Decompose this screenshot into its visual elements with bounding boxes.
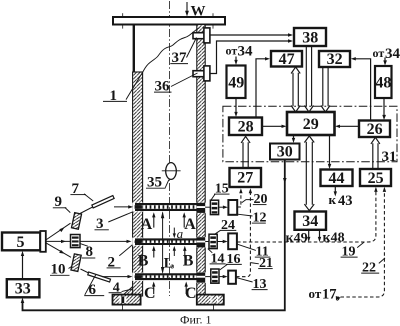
power unit block 33	[7, 279, 40, 297]
centerline column axis	[169, 1, 171, 296]
arrow W load	[186, 2, 188, 13]
svg-text:30: 30	[277, 144, 293, 161]
bolt axis tick left	[122, 13, 124, 28]
wall notch C left	[132, 273, 143, 281]
svg-text:27: 27	[237, 170, 253, 187]
beam splitter 9	[71, 213, 81, 230]
laser source block 5	[2, 233, 40, 251]
beam 5 to splitter 9	[46, 223, 71, 240]
arrow C left	[153, 285, 155, 294]
photodetector 16 (level C)	[211, 269, 219, 283]
svg-text:от: от	[373, 46, 385, 60]
right wall (hatched)	[197, 25, 205, 296]
beam window left wall A	[135, 205, 142, 209]
block 47	[271, 51, 302, 67]
wire 48 to 26	[383, 98, 385, 117]
wire 29 to 44	[329, 135, 331, 166]
svg-text:Фиг. 1: Фиг. 1	[180, 313, 211, 326]
beam wall to detector B	[205, 241, 208, 243]
mirror 7	[92, 196, 114, 208]
block 27	[230, 168, 262, 187]
block 34	[295, 212, 327, 230]
block 32	[319, 51, 350, 67]
beam window left wall B	[135, 240, 142, 243]
channel 25-26	[373, 143, 378, 169]
wire detector to amplifier A	[219, 206, 225, 208]
plate B hatch ticks	[138, 241, 198, 243]
svg-text:A: A	[141, 216, 153, 233]
plate C hatch ticks	[138, 275, 198, 278]
beam 5 to element 8	[46, 240, 71, 242]
left wall upper line	[133, 25, 135, 73]
svg-text:33: 33	[15, 281, 31, 298]
plate A hatch ticks	[138, 205, 198, 208]
sight glass 35 ellipse	[166, 163, 177, 180]
svg-text:29: 29	[303, 116, 319, 133]
svg-text:от: от	[226, 44, 238, 58]
dimension L line	[162, 213, 164, 273]
photodetector 15 (level A)	[210, 200, 218, 214]
svg-text:A: A	[184, 216, 196, 233]
wire 34 to k49	[308, 230, 310, 239]
wire 26 to 32	[354, 59, 371, 121]
wire 28 to 47	[256, 59, 267, 118]
wire 26 to 29	[338, 125, 359, 127]
svg-text:38: 38	[302, 30, 318, 47]
amplifier 11 (level B)	[228, 233, 237, 249]
wall notch A left	[132, 203, 143, 212]
beam C into column	[102, 276, 130, 278]
foot bolt tick left	[121, 305, 123, 310]
svg-text:к: к	[329, 192, 337, 207]
svg-text:к48: к48	[323, 231, 345, 246]
beam 5 to splitter 10	[46, 243, 71, 257]
arrow B left	[153, 250, 155, 258]
svg-text:26: 26	[367, 121, 383, 138]
plate B lines	[135, 239, 203, 244]
mirror 6	[88, 272, 111, 282]
wire 30 down to 33 (feedback)	[23, 160, 285, 311]
channel 47-29 double arrow	[293, 73, 298, 106]
beam B into column	[80, 240, 129, 242]
modulator element 8	[71, 235, 81, 248]
beam window right wall C	[197, 273, 205, 283]
svg-text:34: 34	[238, 44, 254, 60]
block 49	[227, 66, 246, 99]
svg-text:34: 34	[302, 213, 318, 230]
wall notch B right	[196, 237, 205, 248]
svg-text:48: 48	[375, 75, 391, 92]
wire 33 to 5	[22, 255, 24, 280]
wire 28 to 29	[262, 125, 284, 127]
block 44	[321, 170, 353, 187]
svg-text:a: a	[177, 226, 184, 241]
svg-text:17,: 17,	[322, 286, 341, 302]
foot bolt tick right	[212, 305, 214, 310]
ot17 arrowhead	[336, 296, 341, 300]
dash-dot enclosure frame 31	[223, 106, 397, 161]
svg-text:W: W	[191, 4, 206, 20]
left foot (hatched)	[113, 295, 141, 305]
beam 10 to mirror 6	[81, 269, 97, 277]
arrow A right	[183, 216, 185, 228]
wire 29 to 30	[293, 135, 295, 140]
wire 34 to k48	[319, 230, 321, 239]
dashed amplifier 13 to 27	[236, 192, 250, 277]
dashed arrowheads into 25	[374, 187, 377, 192]
dashed ot17 to 25	[341, 190, 385, 297]
svg-text:от: от	[309, 286, 322, 301]
right foot (hatched)	[197, 295, 224, 305]
beam window right wall A	[197, 203, 205, 213]
photodetector 24 (level B)	[209, 234, 217, 248]
wall notch C right	[196, 272, 205, 283]
svg-text:B: B	[138, 253, 149, 270]
left wall (hatched)	[133, 72, 143, 296]
arrow A left	[153, 216, 155, 228]
svg-text:28: 28	[238, 119, 254, 136]
dashed amplifier 12 to 27	[237, 192, 241, 207]
arrow B right	[184, 250, 186, 258]
block 48	[375, 66, 392, 98]
arrow C right	[185, 285, 187, 294]
wire 49 to 28	[235, 98, 237, 114]
beam 9 to mirror 7	[80, 206, 96, 214]
svg-text:44: 44	[329, 170, 345, 187]
laser lens window	[40, 231, 46, 252]
svg-text:34: 34	[385, 46, 400, 62]
svg-text:31: 31	[382, 149, 397, 165]
block 28	[229, 118, 262, 136]
left foot flare	[124, 287, 133, 295]
wall notch B left	[132, 238, 143, 246]
channel 27-28	[243, 142, 248, 168]
plate C lines	[135, 274, 203, 279]
svg-text:49: 49	[228, 74, 244, 91]
plate A lines	[135, 204, 203, 210]
wire 44 to k43	[334, 186, 336, 193]
block 30	[270, 144, 300, 160]
channel 38-29	[306, 46, 311, 106]
svg-text:47: 47	[279, 51, 295, 68]
dashed arrowheads into 27	[239, 188, 242, 193]
svg-text:43: 43	[338, 193, 353, 209]
wire sensor 37 to 38	[210, 34, 291, 36]
wire from 34 into 49	[235, 57, 237, 62]
beam wall to detector A	[205, 206, 210, 208]
channel 29-34	[306, 142, 312, 205]
block 25	[360, 169, 391, 186]
beam window right wall B	[197, 237, 205, 247]
svg-text:5: 5	[17, 234, 25, 251]
wire detector to amplifier C	[219, 276, 224, 278]
block 29	[287, 112, 335, 135]
svg-text:о: о	[170, 262, 174, 271]
dimension a arrows	[173, 228, 175, 235]
svg-text:25: 25	[368, 170, 384, 187]
top plate of column	[113, 17, 225, 25]
wire detector to amplifier B	[217, 241, 224, 243]
svg-text:32: 32	[327, 51, 343, 68]
channel 32-29	[323, 67, 328, 106]
wire sensor 36 to 38	[210, 41, 291, 74]
amplifier 13 (level C)	[228, 271, 236, 284]
wire from 34 into 48	[384, 58, 386, 63]
block 38	[294, 28, 326, 46]
clamp 37 on wall	[193, 33, 210, 39]
bolt axis tick right	[212, 13, 214, 28]
beam A into column	[114, 206, 131, 208]
wall notch A right	[196, 203, 205, 214]
block 26	[359, 121, 390, 138]
beam wall to detector C	[205, 276, 210, 278]
amplifier 12 (level A)	[228, 200, 237, 215]
beam window left wall C	[135, 275, 142, 278]
clamp 36 on wall	[193, 71, 210, 77]
beam splitter 10	[71, 254, 81, 272]
dashed amplifier 11 to 25	[237, 190, 376, 242]
svg-text:к49: к49	[286, 231, 308, 246]
